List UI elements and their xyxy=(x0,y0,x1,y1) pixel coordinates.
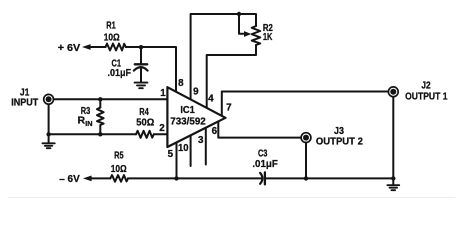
svg-text:OUTPUT 2: OUTPUT 2 xyxy=(316,135,363,147)
svg-text:1K: 1K xyxy=(263,31,273,43)
svg-text:9: 9 xyxy=(193,87,199,98)
svg-text:1: 1 xyxy=(160,88,166,99)
svg-text:3: 3 xyxy=(198,135,204,146)
svg-text:50Ω: 50Ω xyxy=(136,117,154,129)
svg-text:8: 8 xyxy=(178,78,184,89)
svg-text:4: 4 xyxy=(208,93,214,104)
svg-text:R5: R5 xyxy=(114,149,124,161)
svg-text:733/592: 733/592 xyxy=(170,117,206,128)
svg-text:OUTPUT 1: OUTPUT 1 xyxy=(405,91,448,103)
svg-text:INPUT: INPUT xyxy=(11,96,39,108)
svg-text:6: 6 xyxy=(212,126,218,137)
svg-text:10: 10 xyxy=(178,143,189,154)
svg-text:.01μF: .01μF xyxy=(252,158,278,170)
svg-text:IC1: IC1 xyxy=(180,105,195,116)
svg-text:10Ω: 10Ω xyxy=(111,163,127,175)
svg-text:– 6V: – 6V xyxy=(59,173,80,185)
svg-text:7: 7 xyxy=(226,102,232,113)
svg-text:+ 6V: + 6V xyxy=(58,42,81,54)
svg-text:.01μF: .01μF xyxy=(108,67,132,79)
svg-text:5: 5 xyxy=(168,149,174,160)
svg-text:2: 2 xyxy=(159,123,165,134)
svg-text:10Ω: 10Ω xyxy=(104,31,120,43)
svg-text:R1: R1 xyxy=(106,20,116,32)
